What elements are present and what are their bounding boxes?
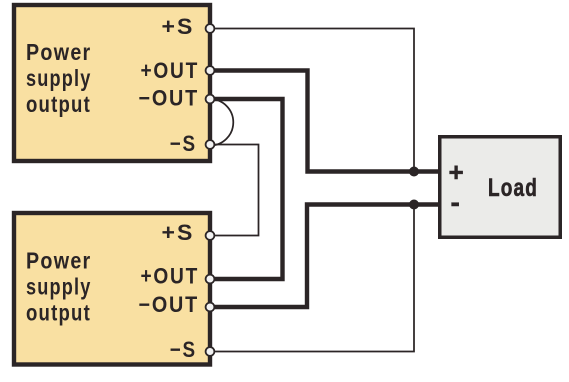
svg-text:+S: +S xyxy=(162,220,195,245)
PS2 terminal +OUT xyxy=(206,275,215,284)
svg-text:output: output xyxy=(26,91,91,117)
wire PS2 -S sense to load - (thin) xyxy=(215,205,414,352)
svg-text:Power: Power xyxy=(26,248,92,274)
power supply box PS1 xyxy=(14,5,210,161)
svg-text:−S: −S xyxy=(170,337,197,362)
PS1 terminal -S xyxy=(206,140,215,149)
PS1 terminal -OUT xyxy=(206,95,215,104)
PS1 terminal +OUT xyxy=(206,66,215,75)
power supply PS1 label xyxy=(26,39,92,117)
junction dot at load - xyxy=(409,200,419,210)
wire PS1 +S sense to load + (thin) xyxy=(215,29,414,172)
PS2 terminal +S xyxy=(206,231,215,240)
junction dot at load + xyxy=(409,167,419,177)
PS1 terminal +S xyxy=(206,24,215,33)
svg-text:supply: supply xyxy=(26,65,92,91)
PS2 terminal -S xyxy=(206,347,215,356)
svg-text:−OUT: −OUT xyxy=(139,86,200,111)
power supply PS2 label xyxy=(26,248,92,326)
svg-text:+OUT: +OUT xyxy=(141,264,200,289)
load box xyxy=(440,137,561,238)
wire PS2 -OUT to load - (thick) xyxy=(212,205,440,308)
svg-text:Load: Load xyxy=(488,174,538,202)
wire PS1 +OUT to load + (thick) xyxy=(212,71,440,172)
svg-text:−OUT: −OUT xyxy=(139,292,200,317)
svg-text:−S: −S xyxy=(170,131,197,156)
svg-text:+S: +S xyxy=(162,14,195,39)
PS2 terminal -OUT xyxy=(206,303,215,312)
wire PS1 -S to PS2 +S sense link (thin) xyxy=(215,145,259,236)
svg-text:-: - xyxy=(451,187,460,218)
svg-text:output: output xyxy=(26,300,91,326)
power supply box PS2 xyxy=(14,213,210,365)
svg-text:+OUT: +OUT xyxy=(141,58,200,83)
svg-text:supply: supply xyxy=(26,274,92,300)
arc jumper PS1 -OUT to -S (thin) xyxy=(210,99,233,146)
svg-text:+: + xyxy=(449,157,464,187)
svg-text:Power: Power xyxy=(26,39,92,65)
wire PS1 -OUT to PS2 +OUT (thick series link) xyxy=(212,99,283,279)
